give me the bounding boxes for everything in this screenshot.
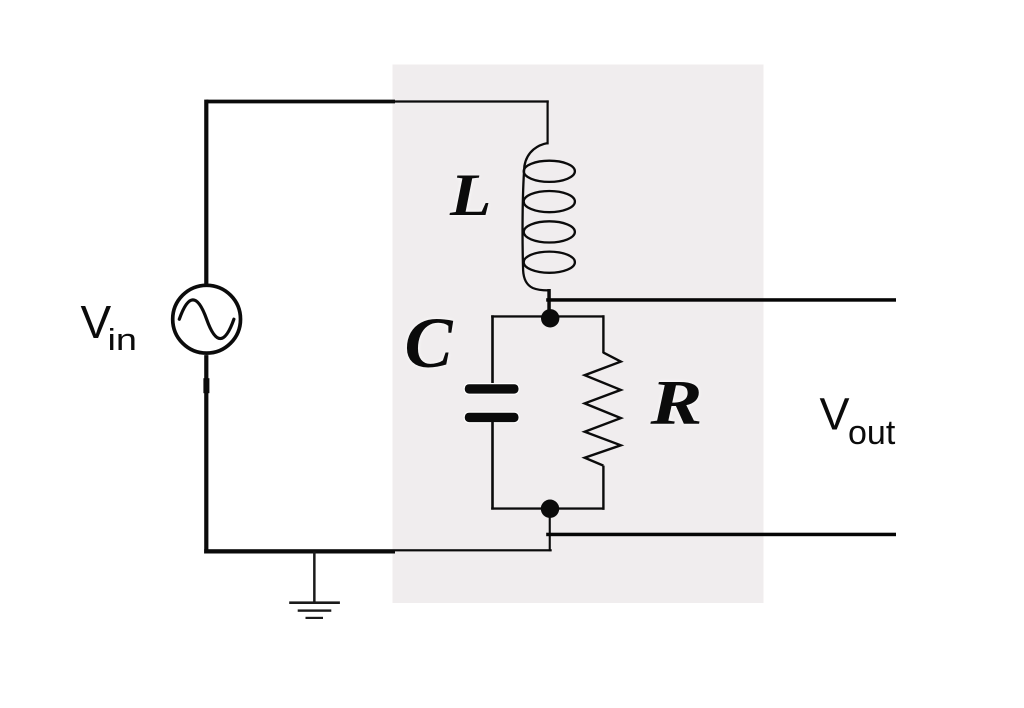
wire: capacitor top lead [491, 315, 494, 386]
wire: resistor bottom lead [602, 466, 604, 510]
wire: inductor bottom lead to tank top node [547, 289, 551, 318]
wire: capacitor bottom lead [491, 422, 494, 510]
svg-text:Vout: Vout [820, 389, 896, 453]
wire: tank top horizontal [491, 315, 604, 317]
svg-text:in: in [108, 322, 138, 357]
ground stem [313, 551, 316, 602]
sine symbol inside source [179, 300, 234, 339]
wire overlap nub on lower left vertical [203, 378, 209, 393]
wire: resistor top lead [602, 315, 604, 353]
wire: top from source to inductor (thick left part) [206, 100, 395, 104]
capacitor C top plate [465, 384, 519, 393]
filter network shaded region [393, 65, 764, 604]
wire: tank bottom horizontal [491, 507, 604, 509]
resistor R zigzag [585, 353, 621, 466]
wire: left vertical from source bottom to bottom wire [204, 355, 208, 553]
ground bar 1 [289, 601, 340, 604]
svg-text:R: R [649, 366, 702, 437]
svg-text:L: L [449, 162, 492, 229]
wire: vertical drop to inductor top [547, 100, 549, 144]
wire: bottom thin continuation into shaded block [395, 549, 552, 551]
voltage source V_in (AC source circle) [173, 285, 241, 353]
wire: top thin continuation into shaded block [395, 100, 549, 102]
wire: bottom from source to ground junction (thick) [204, 549, 395, 553]
inductor L coil [523, 143, 575, 290]
svg-text:C: C [405, 303, 454, 383]
wire: stub from bottom node to bottom rail [549, 509, 551, 552]
ground bar 3 [306, 617, 324, 619]
wire: left vertical from top wire to source top [204, 100, 208, 285]
wire: output bottom [546, 533, 896, 537]
capacitor C bottom plate [465, 413, 519, 422]
node: tank top junction dot [541, 309, 559, 327]
wire: output top [546, 298, 896, 302]
node: tank bottom junction dot [541, 500, 559, 518]
ground bar 2 [298, 609, 332, 611]
